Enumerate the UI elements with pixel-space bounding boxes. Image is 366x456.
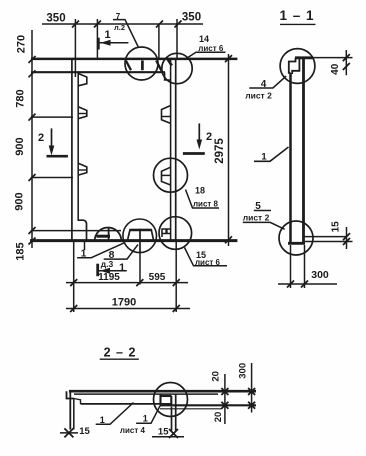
panel top edge — [31, 58, 237, 61]
left jamb tab 1 — [78, 74, 87, 86]
sheet main lines — [289, 73, 292, 244]
top dimension line — [42, 19, 203, 77]
svg-text:1790: 1790 — [112, 297, 136, 309]
right jamb web — [175, 59, 177, 241]
left jamb web — [71, 59, 73, 241]
detail circle 9 (2-2 right) — [154, 383, 188, 417]
hook in circle9 — [159, 394, 161, 404]
svg-text:270: 270 — [16, 35, 28, 53]
svg-text:2975: 2975 — [214, 138, 226, 164]
left 15 tick cross — [64, 428, 73, 437]
svg-text:1 – 1: 1 – 1 — [279, 8, 314, 23]
svg-text:300: 300 — [311, 269, 329, 281]
detail circle 5 (bottom middle) — [123, 219, 157, 253]
2-2 right dims — [224, 374, 226, 424]
15 dim (section bottom) — [304, 236, 347, 238]
detail circle 2 (top right) — [162, 53, 192, 83]
300 dim (section) — [290, 245, 292, 288]
sheet top lines — [69, 390, 256, 393]
circle1 weld slash left — [126, 61, 131, 71]
svg-text:1: 1 — [100, 415, 105, 425]
svg-text:15: 15 — [79, 426, 90, 437]
bottom flange lines — [81, 403, 173, 405]
detail circle 7 (section top) — [280, 49, 315, 84]
bottom dim row 1 — [66, 282, 188, 284]
top rail bottom edge — [31, 71, 165, 73]
right 15 tick cross — [169, 429, 178, 438]
left jamb bottom foot — [78, 220, 86, 240]
detail circle 6 (bottom right jamb) — [159, 217, 192, 250]
svg-text:900: 900 — [14, 192, 26, 210]
svg-text:300: 300 — [238, 363, 249, 379]
detail circle 1 (top left) — [125, 47, 158, 80]
circle1 center bar — [141, 61, 144, 71]
right jamb tab in circle2 — [165, 72, 171, 80]
left jamb tab 2 — [78, 107, 87, 119]
left dimension line — [31, 30, 121, 248]
svg-text:лист 4: лист 4 — [120, 426, 146, 435]
dome detail (bottom left) — [95, 228, 122, 241]
svg-text:900: 900 — [14, 137, 26, 155]
left jamb tab 3 — [78, 163, 87, 175]
svg-text:1195: 1195 — [98, 272, 120, 283]
svg-text:д.3: д.3 — [101, 259, 114, 269]
svg-text:15: 15 — [331, 221, 342, 233]
bottom bracket in circle5 — [128, 230, 154, 240]
right jamb tab 1 — [162, 106, 171, 124]
svg-text:780: 780 — [15, 89, 27, 107]
svg-text:2 – 2: 2 – 2 — [104, 346, 137, 360]
right dimension 2975 — [228, 54, 230, 246]
svg-text:лист 2: лист 2 — [243, 213, 270, 223]
svg-text:20: 20 — [210, 371, 221, 382]
svg-text:18: 18 — [195, 185, 205, 195]
panel bottom edge — [30, 239, 237, 242]
svg-text:лист 2: лист 2 — [245, 90, 272, 100]
left leg — [69, 391, 71, 429]
svg-text:2: 2 — [38, 132, 44, 144]
svg-text:595: 595 — [149, 272, 166, 283]
detail circle 8 (section bottom) — [279, 221, 313, 255]
right jamb tab 2 (in circle3) — [162, 167, 171, 185]
top dim ticks — [72, 21, 182, 28]
svg-text:185: 185 — [15, 242, 27, 260]
svg-text:л.2: л.2 — [114, 23, 125, 32]
svg-text:20: 20 — [213, 412, 224, 423]
svg-text:1: 1 — [104, 29, 110, 41]
detail circle 3 (right jamb middle) — [154, 158, 188, 192]
40 dim — [313, 57, 353, 59]
svg-text:14: 14 — [199, 34, 209, 44]
svg-text:350: 350 — [182, 12, 201, 24]
svg-text:15: 15 — [158, 427, 169, 438]
left hook — [67, 391, 75, 398]
svg-text:40: 40 — [330, 63, 341, 75]
right leg — [171, 407, 173, 431]
left dim ticks — [29, 56, 36, 245]
bottom dim row 2 — [66, 308, 190, 310]
svg-text:2: 2 — [206, 131, 212, 143]
svg-text:лист 8: лист 8 — [193, 200, 219, 209]
sheet top hook — [295, 56, 313, 59]
sheet bottom edge — [288, 242, 305, 245]
right jamb weld mark top — [168, 60, 172, 66]
right jamb tab 3 (in circle6) — [162, 229, 171, 237]
svg-text:350: 350 — [46, 13, 65, 25]
svg-text:1: 1 — [143, 414, 148, 424]
circle1 weld slash right — [156, 61, 161, 71]
